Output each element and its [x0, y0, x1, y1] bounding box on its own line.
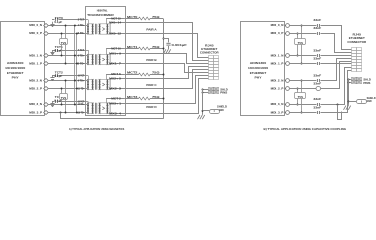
capacitor C10 33nF on MDI_0_N (circuit B) — [289, 25, 316, 27]
svg-text:7 TCT: 7 TCT — [78, 49, 85, 52]
svg-text:MX3- 4: MX3- 4 — [109, 113, 122, 116]
svg-text:TCT1: TCT1 — [55, 45, 63, 49]
capacitor C12 33nF on MDI_1_N (circuit B) — [289, 55, 316, 57]
svg-text:TVS: TVS — [61, 96, 67, 100]
svg-text:MDI_0_P: MDI_0_P — [271, 31, 284, 35]
svg-text:MCT2: MCT2 — [127, 70, 138, 74]
IC U2 ADIN1300 Ethernet PHY block (circuit B) — [241, 22, 285, 116]
svg-text:MX1+ 9: MX1+ 9 — [109, 53, 122, 56]
capacitor C15 33nF on MDI_2_P (circuit B) — [289, 88, 316, 90]
wire TVS return to chassis (circuit B) — [337, 104, 339, 106]
svg-text:MX0- 12: MX0- 12 — [109, 33, 122, 36]
TVS protection array D2 (pairs C/D) — [61, 89, 63, 105]
svg-text:CONNECTOR: CONNECTOR — [347, 40, 366, 44]
svg-text:PAIR C: PAIR C — [146, 83, 157, 87]
svg-text:75Ω: 75Ω — [152, 45, 160, 49]
svg-text:GND: GND — [367, 99, 372, 103]
svg-text:3 TD-: 3 TD- — [78, 32, 85, 35]
svg-text:MCT3: MCT3 — [127, 95, 138, 99]
svg-text:B) TYPICAL APPLICATION USING C: B) TYPICAL APPLICATION USING CAPACITIVE … — [264, 127, 347, 131]
chassis ground under C9 — [168, 48, 170, 51]
svg-text:TVS: TVS — [298, 95, 304, 99]
svg-text:33nF: 33nF — [313, 73, 321, 77]
wire TD2- to RJ45 J1 — [125, 70, 209, 89]
wire MDI_2_P to RJ45 J2 (circuit B) — [321, 62, 352, 89]
TVS protection array D3 (circuit B pairs 0/1) — [297, 33, 299, 56]
wire MDI_1_P to RJ45 J2 (circuit B) — [320, 63, 351, 65]
ground for TCT2 capacitor — [52, 76, 54, 78]
capacitor C14 33nF on MDI_2_N (circuit B) — [289, 80, 316, 82]
svg-text:33nF: 33nF — [313, 56, 321, 60]
capacitor C13 33nF on MDI_1_P (circuit B) — [289, 63, 316, 65]
ground for TCT0 capacitor — [52, 22, 54, 24]
wire shield pins to chassis (circuit B) — [349, 79, 352, 81]
svg-text:MDI_2_P: MDI_2_P — [271, 87, 284, 91]
IC U1 ADIN1300 Ethernet PHY block (circuit A) — [1, 22, 45, 116]
svg-text:TCT0: TCT0 — [55, 16, 63, 20]
svg-text:MDI_3_N: MDI_3_N — [29, 102, 42, 106]
ferrite bead FB2 to shield gnd (circuit B) — [349, 101, 357, 103]
svg-text:14 TD+: 14 TD+ — [78, 103, 85, 106]
wire MDI_1_N to RJ45 J2 (circuit B) — [321, 55, 352, 57]
transformer T1 H5007NL box — [86, 7, 126, 116]
wire TD3+ to RJ45 J1 — [125, 76, 209, 104]
capacitor C16 33nF on MDI_3_N (circuit B) — [289, 104, 316, 106]
svg-text:H5007NL: H5007NL — [97, 9, 108, 13]
svg-text:MDI_1_P: MDI_1_P — [29, 62, 42, 66]
chassis ground (circuit A) — [202, 113, 204, 116]
svg-text:9 TD+: 9 TD+ — [78, 79, 85, 82]
svg-text:PINS: PINS — [220, 92, 227, 95]
svg-text:6 TD+: 6 TD+ — [78, 54, 85, 57]
svg-text:33nF: 33nF — [313, 26, 321, 30]
svg-text:MCT 6: MCT 6 — [111, 73, 121, 76]
svg-text:MCT1: MCT1 — [127, 45, 138, 49]
svg-text:PAIR B: PAIR B — [146, 58, 157, 62]
svg-text:MX2- 3: MX2- 3 — [109, 88, 122, 91]
svg-text:16 TD-: 16 TD- — [78, 111, 85, 114]
svg-text:75Ω: 75Ω — [152, 15, 160, 19]
capacitor C9 0.001uF to chassis — [163, 38, 169, 40]
svg-text:MDI_1_N: MDI_1_N — [271, 54, 284, 58]
svg-text:33nF: 33nF — [313, 81, 321, 85]
resistor R4 75 ohm on MCT3 net — [125, 98, 139, 100]
connector J2 shield pins — [352, 78, 357, 81]
svg-text:TVS: TVS — [298, 41, 304, 45]
ground for TCT1 capacitor — [52, 50, 54, 52]
chassis ground (circuit B) — [348, 104, 350, 107]
wire TVS rail 2 — [76, 33, 78, 113]
svg-text:11 TD-: 11 TD- — [78, 87, 85, 90]
svg-text:MX2+ 5: MX2+ 5 — [109, 78, 122, 81]
svg-text:MDI_0_N: MDI_0_N — [271, 23, 284, 27]
svg-text:10 TCT: 10 TCT — [78, 74, 85, 77]
wire MDI_2_N to transformer T1 — [48, 80, 87, 82]
capacitor CT3 0.1uF on TCT3 center tap — [52, 101, 54, 103]
svg-text:ETHERNET: ETHERNET — [250, 71, 267, 75]
svg-text:2 TCT: 2 TCT — [78, 19, 85, 22]
svg-text:MCT0: MCT0 — [127, 15, 138, 19]
svg-text:A) TYPICAL APPLICATION USING M: A) TYPICAL APPLICATION USING MAGNETICS — [69, 127, 125, 131]
capacitor C17 33nF on MDI_3_P (circuit B) — [289, 112, 316, 114]
wire TD1- to RJ45 J1 — [125, 64, 209, 73]
wire MDI_0_P to transformer T1 — [48, 33, 87, 35]
svg-text:TCT2: TCT2 — [55, 70, 63, 74]
svg-text:ADIN1300: ADIN1300 — [250, 61, 267, 65]
capacitor CT2 0.1uF on TCT2 center tap — [52, 75, 54, 77]
svg-text:MDI_0_N: MDI_0_N — [29, 23, 42, 27]
svg-text:10/100/1000: 10/100/1000 — [5, 66, 26, 70]
svg-text:33nF: 33nF — [313, 48, 321, 52]
svg-text:MDI_3_N: MDI_3_N — [271, 102, 284, 106]
ferrite bead FB1 to shield gnd (circuit A) — [203, 110, 210, 112]
wire TD2+ to RJ45 J1 — [125, 67, 209, 79]
wire MDI_3_P to RJ45 J2 (circuit B) — [321, 71, 352, 113]
wire TD0+ to RJ45 J1 — [125, 23, 209, 61]
wire MDI_0_N to RJ45 J2 (circuit B) — [321, 26, 352, 50]
TVS protection array D1 (pairs A/B) — [61, 33, 63, 56]
wire MDI_3_P row to rail bottom — [60, 112, 62, 114]
svg-text:75Ω: 75Ω — [152, 70, 160, 74]
svg-text:10/100/1000: 10/100/1000 — [248, 66, 269, 70]
wire MDI_3_P to transformer T1 — [48, 112, 87, 114]
wire MDI_1_P to transformer T1 — [48, 63, 87, 65]
svg-text:MCT 15: MCT 15 — [111, 17, 121, 20]
svg-text:0.1µF: 0.1µF — [54, 74, 62, 78]
wire TD3- to RJ45 J1 — [125, 79, 209, 114]
svg-text:1 TD+: 1 TD+ — [78, 24, 85, 27]
svg-text:MX1- 7: MX1- 7 — [109, 63, 122, 66]
svg-text:75Ω: 75Ω — [152, 95, 160, 99]
connector J1 shield pins — [209, 88, 214, 91]
svg-text:MCT 2: MCT 2 — [111, 97, 121, 100]
svg-text:33nF: 33nF — [313, 97, 321, 101]
svg-text:ETHERNET: ETHERNET — [7, 71, 24, 75]
svg-text:33nF: 33nF — [313, 105, 321, 109]
resistor R2 75 ohm on MCT1 net — [125, 48, 139, 50]
capacitor CT1 0.1uF on TCT1 center tap — [52, 50, 54, 52]
svg-text:0.001µF: 0.001µF — [172, 43, 188, 47]
wire MDI_1_N to transformer T1 — [48, 55, 87, 57]
resistor R1 75 ohm on MCT0 net — [125, 18, 139, 20]
svg-text:MDI_0_P: MDI_0_P — [29, 31, 42, 35]
svg-text:TVS: TVS — [61, 41, 67, 45]
svg-text:8 TD-: 8 TD- — [78, 62, 85, 65]
svg-text:MDI_1_N: MDI_1_N — [29, 54, 42, 58]
svg-text:MDI_3_P: MDI_3_P — [29, 111, 42, 115]
svg-text:ADIN1300: ADIN1300 — [7, 61, 24, 65]
svg-text:MX3+ 1: MX3+ 1 — [109, 103, 122, 106]
wire TD0- to RJ45 J1 — [125, 34, 209, 58]
wire TVS rail 1 — [74, 25, 76, 104]
ground for TCT3 capacitor — [52, 102, 54, 104]
connector J2 pin header 8 pins — [352, 48, 357, 51]
svg-text:GND: GND — [219, 108, 224, 112]
resistor R3 75 ohm on MCT2 net — [125, 74, 139, 76]
svg-text:PINS: PINS — [363, 82, 370, 85]
wire shield pins to chassis (circuit A) — [203, 89, 209, 91]
svg-text:PAIR D: PAIR D — [146, 105, 157, 109]
svg-text:MDI_2_N: MDI_2_N — [29, 79, 42, 83]
wire MCT common rail — [163, 19, 165, 119]
svg-text:33nF: 33nF — [313, 18, 321, 22]
svg-text:CONNECTOR: CONNECTOR — [200, 50, 219, 54]
wire MDI_3_N to transformer T1 — [48, 104, 87, 106]
wire MDI_0_P to RJ45 J2 (circuit B) — [321, 34, 352, 53]
svg-text:MDI_2_N: MDI_2_N — [271, 79, 284, 83]
wire MDI_3_N to RJ45 J2 (circuit B) — [321, 68, 352, 105]
wire MDI_0_N to transformer T1 — [48, 25, 87, 27]
svg-text:MDI_1_P: MDI_1_P — [271, 62, 284, 66]
svg-text:0.1µF: 0.1µF — [54, 20, 62, 24]
svg-text:PAIR A: PAIR A — [146, 27, 157, 31]
wire TD1+ to RJ45 J1 — [125, 54, 209, 64]
TVS protection array D4 (circuit B pairs 2/3) — [297, 89, 299, 105]
capacitor C11 33nF on MDI_0_P (circuit B) — [289, 33, 316, 35]
svg-text:MDI_2_P: MDI_2_P — [29, 87, 42, 91]
wire MDI_2_N to RJ45 J2 (circuit B) — [321, 59, 352, 81]
wire MDI_2_P to transformer T1 — [48, 88, 87, 90]
svg-text:MX0+ 14: MX0+ 14 — [109, 22, 122, 25]
capacitor CT0 0.1uF on TCT0 center tap — [52, 19, 54, 21]
svg-text:PHY: PHY — [255, 76, 262, 80]
svg-text:MCT 10: MCT 10 — [111, 47, 121, 50]
svg-text:PHY: PHY — [12, 76, 19, 80]
connector J1 pin header 8 pins — [209, 56, 214, 59]
svg-text:MDI_3_P: MDI_3_P — [271, 111, 284, 115]
